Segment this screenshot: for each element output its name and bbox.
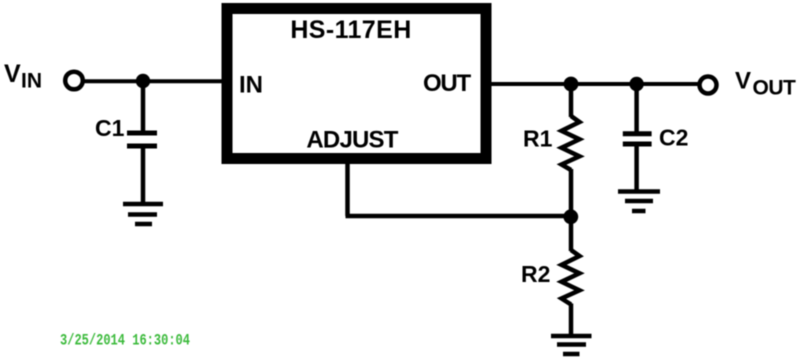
wire junction to R2 top bbox=[569, 217, 574, 251]
capacitor C2 bbox=[623, 134, 652, 144]
junction node OUT/C2 bbox=[629, 77, 643, 91]
ground symbol at R2 bbox=[551, 336, 592, 354]
wire OUT pin to VOUT terminal bbox=[491, 82, 699, 86]
resistor R1 bbox=[562, 116, 580, 170]
label U1 value HS-117EH bbox=[290, 16, 411, 44]
wire C2 bottom plate to ground bbox=[634, 144, 639, 192]
label C2 bbox=[659, 125, 688, 151]
svg-text:3/25/2014 16:30:04: 3/25/2014 16:30:04 bbox=[60, 332, 190, 350]
node VIN label bbox=[4, 60, 42, 93]
ground symbol at C2 bbox=[618, 192, 660, 212]
label R1 bbox=[523, 126, 553, 152]
timestamp annotation bbox=[60, 332, 190, 350]
svg-text:V: V bbox=[735, 68, 751, 95]
label R2 bbox=[521, 261, 550, 287]
wire ADJUST to R1/R2 junction bbox=[346, 214, 572, 219]
svg-text:OUT: OUT bbox=[423, 70, 472, 97]
svg-text:R1: R1 bbox=[523, 126, 553, 152]
junction node ADJ/R1/R2 bbox=[563, 209, 578, 224]
wire C2 junction to C2 top plate bbox=[634, 84, 639, 134]
terminal VOUT bbox=[700, 77, 717, 94]
wire ADJUST pin down bbox=[345, 163, 350, 216]
svg-text:OUT: OUT bbox=[753, 77, 797, 100]
svg-text:R2: R2 bbox=[521, 261, 550, 287]
svg-text:V: V bbox=[4, 60, 21, 88]
svg-text:C2: C2 bbox=[659, 125, 688, 151]
pin label ADJUST bbox=[306, 127, 398, 154]
wire OUT junction to R1 top bbox=[569, 84, 574, 117]
terminal VIN bbox=[65, 72, 83, 90]
wire VIN to IN pin bbox=[83, 79, 222, 83]
svg-text:ADJUST: ADJUST bbox=[306, 127, 398, 154]
capacitor C1 bbox=[127, 133, 157, 146]
pin label OUT bbox=[423, 70, 472, 97]
wire R2 bottom to ground bbox=[569, 304, 574, 337]
ground symbol at C1 bbox=[123, 204, 163, 224]
svg-text:IN: IN bbox=[239, 72, 263, 99]
resistor R2 bbox=[562, 250, 580, 305]
wire C1 bottom plate to ground bbox=[141, 146, 146, 204]
junction node VIN/C1 bbox=[136, 74, 150, 88]
svg-text:HS-117EH: HS-117EH bbox=[290, 16, 411, 44]
wire R1 bottom to ADJ junction bbox=[569, 169, 574, 217]
junction node OUT/R1 bbox=[564, 77, 579, 92]
pin label IN bbox=[239, 72, 263, 99]
regulator U1 HS-117EH box bbox=[227, 9, 486, 159]
wire junction to C1 top plate bbox=[141, 81, 146, 133]
node VOUT label bbox=[735, 68, 796, 100]
svg-text:IN: IN bbox=[21, 70, 42, 93]
svg-text:C1: C1 bbox=[95, 115, 125, 141]
label C1 bbox=[95, 115, 125, 141]
